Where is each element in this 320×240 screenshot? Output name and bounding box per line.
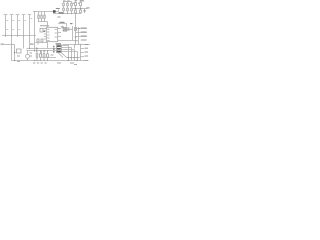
node dots rail y8.5: [75, 8, 81, 9]
connector J2 left vertical pair: [12, 36, 15, 61]
resistor R8 bottom row: [43, 51, 45, 54]
capacitor C6 beside crystal: [68, 27, 69, 31]
label S1: [17, 53, 32, 62]
node dot reset: [44, 31, 45, 32]
wire top net y44.5 right section: [63, 44, 91, 46]
node dots ground bus: [14, 60, 78, 61]
wire diagonal from U2: [58, 53, 67, 58]
capacitor C2: [67, 2, 69, 4]
wire y24 from IC top: [58, 24, 67, 27]
label Q1 value: [56, 8, 60, 9]
wire ground bus bottom y60.5: [12, 60, 89, 62]
label net names right: [75, 28, 87, 46]
node dot on J2: [14, 52, 15, 53]
resistor R7 bottom row: [40, 51, 42, 54]
wire net label lines right: [58, 27, 87, 45]
resistor R10 bottom row: [36, 49, 38, 54]
wire from rail down right side: [75, 14, 77, 28]
speaker LS1 round component: [26, 54, 30, 58]
label net name under rail: [58, 17, 61, 18]
wire right verticals down: [75, 45, 81, 61]
wire long vertical from bus to bottom: [34, 36, 36, 51]
label CE text: [30, 44, 34, 45]
wire right vertical net: [75, 27, 77, 45]
wire horizontal y57.5: [42, 57, 81, 59]
node dots on y57.5: [68, 57, 78, 58]
connector J1 header pins top-left: [4, 15, 32, 36]
label cap designators top: [63, 0, 82, 1]
capacitor C4 below rail: [75, 9, 77, 11]
wire net stub lines right bottom: [81, 49, 85, 57]
wire joining resistors bottom: [39, 22, 48, 28]
diode D2 pair mid-left: [37, 39, 39, 42]
pin stubs right U1: [58, 29, 61, 37]
node dot right net: [75, 36, 76, 37]
diode D1: [84, 9, 86, 14]
capacitor C1: [63, 2, 65, 4]
wire top rail of caps: [64, 1, 72, 3]
label bottom annotations: [57, 63, 77, 65]
label pin numbers header: [7, 18, 33, 30]
node junction dots on bus: [5, 36, 24, 37]
label PWR: [59, 12, 64, 13]
switch S1 box: [17, 49, 22, 53]
node dots on power rail: [63, 13, 76, 14]
node dots bus: [29, 48, 45, 52]
label above oscillator: [60, 22, 73, 24]
wire vertical taps onto bus: [24, 36, 30, 49]
resistor R9 bottom row: [47, 51, 49, 54]
wire left net into connector: [4, 44, 15, 46]
wire U2 pins right turning down: [62, 46, 69, 61]
resistor R6 on right net: [75, 28, 77, 31]
wire bus horizontal y36: [2, 35, 36, 37]
crystal Y1: [63, 28, 66, 32]
wire bus pair to bottom IC: [27, 49, 57, 51]
wire vertical net from header to bus: [33, 12, 36, 36]
transistor Q2 dashes left of U2: [53, 46, 54, 53]
capacitor C7 reset box: [40, 29, 43, 33]
wire horizontal y12 to resistor bank: [35, 11, 54, 13]
wire left vertical into y57.5: [41, 51, 43, 58]
capacitor C3: [71, 2, 73, 4]
label U1 pin names: [40, 25, 57, 41]
node dots resistor row: [37, 48, 49, 61]
op-amp U2 dark IC: [57, 45, 62, 53]
resistor R5 top right: [80, 1, 82, 3]
wire power rail y14: [53, 13, 81, 15]
wire crystal connections: [63, 26, 73, 41]
capacitor C5 below rail: [80, 9, 82, 11]
label U2 above: [56, 43, 62, 44]
resistor R2: [41, 12, 43, 16]
label GND left: [1, 44, 5, 45]
label VCC top right: [73, 0, 90, 8]
label bottom resistor values: [33, 55, 54, 64]
wire collector to power rail: [56, 10, 59, 12]
op-amp U1 main IC body: [46, 27, 57, 41]
resistor R4 top right: [75, 1, 77, 3]
pin stubs left U1: [44, 34, 47, 39]
resistor R3: [44, 12, 46, 16]
label net names right bottom: [85, 44, 89, 61]
wire upper-right rail y8.5: [73, 8, 88, 10]
transistor Q1: [53, 10, 56, 13]
resistor R1: [38, 12, 40, 16]
